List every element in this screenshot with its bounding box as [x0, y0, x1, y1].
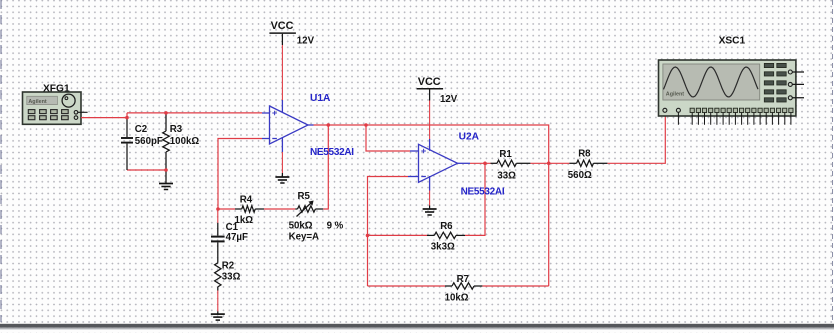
op-amp U1A [262, 100, 314, 152]
svg-text:R8: R8 [578, 149, 591, 160]
svg-text:3k3Ω: 3k3Ω [431, 242, 455, 253]
instrument XFG1 function generator body [23, 92, 82, 124]
svg-text:C1: C1 [226, 222, 239, 233]
capacitor C2 [121, 118, 133, 170]
svg-text:C2: C2 [135, 124, 147, 135]
wire tap to U2A noninverting input [366, 125, 410, 151]
svg-text:100kΩ: 100kΩ [170, 136, 200, 147]
ground below U2A [423, 206, 437, 216]
svg-text:47µF: 47µF [226, 232, 248, 243]
resistor R2 [215, 259, 221, 291]
instrument XSC1 oscilloscope body [659, 60, 796, 116]
svg-text:R2: R2 [222, 261, 234, 272]
wire VCC to U2A power pin [429, 101, 431, 140]
node R7 output junction [547, 162, 551, 166]
svg-text:Agilent: Agilent [666, 91, 684, 97]
svg-text:R1: R1 [499, 149, 512, 160]
power VCC supply for U2A [417, 76, 444, 101]
svg-text:R7: R7 [457, 274, 469, 285]
resistor R8 [569, 160, 607, 166]
resistor R7 [445, 283, 482, 289]
wire U1A inverting input from feedback column [218, 139, 262, 210]
svg-text:560pF: 560pF [135, 136, 163, 147]
svg-text:R3: R3 [170, 124, 183, 135]
ground below R2 [211, 311, 225, 320]
wire U2A negative supply pin to ground [429, 191, 431, 206]
resistor R4 [235, 206, 264, 212]
svg-text:R5: R5 [298, 191, 311, 202]
potentiometer R5 [295, 201, 323, 217]
svg-text:NE5532AI: NE5532AI [461, 187, 505, 198]
op-amp U2A [408, 139, 470, 191]
XSC1 right terminal stubs [792, 72, 804, 98]
svg-text:NE5532AI: NE5532AI [310, 147, 354, 158]
bottom window border band [0, 324, 834, 330]
svg-text:VCC: VCC [271, 20, 294, 32]
wire node A jog up [126, 113, 128, 118]
svg-text:Key=A: Key=A [289, 231, 319, 242]
power VCC supply for U1A [269, 20, 296, 45]
wire U1A negative supply pin to ground [281, 152, 283, 173]
svg-text:10kΩ: 10kΩ [445, 292, 469, 303]
svg-text:R4: R4 [240, 194, 253, 205]
node U2A output junction [483, 162, 487, 166]
wire U1A output line across to R7 column [314, 125, 549, 286]
svg-text:560Ω: 560Ω [568, 170, 592, 181]
wire VCC to U1A power pin [281, 45, 283, 100]
wire U2A inverting input to R6 R7 column [368, 177, 409, 287]
wire R7 row [368, 285, 446, 287]
svg-text:U2A: U2A [459, 131, 480, 142]
svg-text:R6: R6 [440, 221, 453, 232]
node U2A input tap junction [364, 123, 368, 127]
svg-text:33Ω: 33Ω [497, 170, 516, 181]
svg-text:33Ω: 33Ω [222, 272, 241, 283]
svg-text:12V: 12V [297, 36, 315, 47]
capacitor C1 [211, 209, 225, 259]
node R3 top junction [164, 111, 168, 115]
node A junction [125, 116, 129, 120]
resistor R1 [491, 160, 531, 166]
svg-text:U1A: U1A [310, 93, 331, 104]
svg-text:XSC1: XSC1 [719, 36, 746, 47]
wire input line to U1A noninverting input [127, 112, 262, 114]
resistor R3 [163, 113, 170, 170]
page boundary dashed line right [832, 0, 834, 322]
ground below R3 [159, 170, 173, 190]
XSC1 bottom terminal stubs [678, 112, 791, 124]
resistor R6 [427, 232, 465, 238]
svg-text:VCC: VCC [418, 76, 441, 88]
XFG1 unused terminal stub [78, 111, 88, 113]
node U1A output junction [327, 123, 331, 127]
wire U2A output row through R1 R8 to XSC1 [470, 162, 491, 164]
wire R2 to ground [217, 291, 219, 312]
svg-text:Agilent: Agilent [28, 99, 46, 105]
svg-text:12V: 12V [440, 94, 458, 105]
page boundary dashed line left [0, 0, 2, 322]
ground below U1A [275, 173, 289, 183]
node R3 bottom junction [164, 168, 168, 172]
node R6 left junction [366, 234, 370, 238]
wire R6 row [368, 234, 428, 236]
node feedback junction [216, 207, 220, 211]
svg-text:50kΩ: 50kΩ [289, 221, 313, 232]
wire C2 bottom to R3 bottom [127, 169, 166, 171]
wire XFG1 output to node A [81, 117, 127, 119]
wire R4 R5 feedback row [218, 208, 235, 210]
svg-text:9 %: 9 % [327, 221, 344, 232]
